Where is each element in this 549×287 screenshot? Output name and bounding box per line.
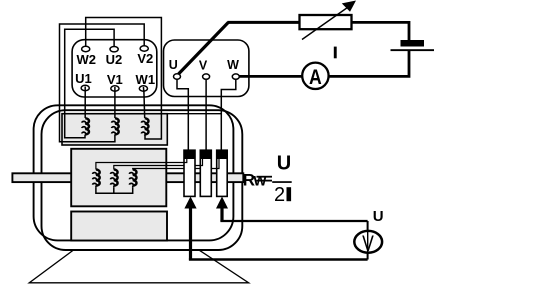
rheostat arrow head [342, 1, 356, 12]
base stand trapezoid [29, 250, 249, 282]
rotor lead 1 to slip ring 1 [96, 163, 184, 170]
battery negative plate [391, 49, 435, 51]
battery positive plate [401, 40, 425, 47]
terminal box [72, 40, 157, 97]
svg-text:W2: W2 [76, 52, 96, 67]
terminal U1 [81, 85, 89, 90]
slip ring 2 body [200, 150, 211, 196]
terminal V2 [140, 46, 148, 51]
rheostat arrow shaft [302, 8, 348, 40]
svg-text:V2: V2 [137, 51, 153, 66]
stator coil 2 [115, 118, 119, 134]
wire stator box top extension [167, 113, 221, 115]
svg-text:U: U [277, 152, 291, 174]
rotor lead 3 tick into ring 3 [216, 159, 219, 169]
rheostat R [300, 15, 352, 29]
slip ring 1 cap [184, 150, 195, 158]
svg-text:A: A [309, 66, 322, 90]
svg-text:U2: U2 [106, 52, 123, 67]
rotor coil 1 [96, 170, 100, 186]
fraction denominator I [287, 187, 292, 201]
wire stub through W1 [142, 87, 145, 92]
terminal V [203, 74, 210, 79]
stator coil 3 [145, 118, 149, 134]
rotor lead 1 tick into ring 1 [184, 159, 187, 163]
wire U2 to coil1 bottom [65, 29, 114, 138]
rotor lead 2 tick into ring 2 [200, 159, 203, 166]
svg-text:V: V [362, 232, 374, 257]
brush arrow 1 [184, 197, 196, 209]
stator winding box [62, 114, 167, 145]
rotor coil 3 [133, 170, 137, 186]
wire blade to rheostat [228, 21, 301, 24]
wire U1 down to coil1 top [84, 91, 86, 118]
rotor star-point bus wire [96, 187, 133, 193]
connector box [164, 40, 249, 97]
fraction bar [272, 181, 292, 183]
svg-text:W: W [227, 58, 239, 72]
rotor box [71, 149, 166, 207]
switch blade from U terminal [179, 22, 229, 74]
terminal V1 [111, 86, 119, 91]
shaft [12, 173, 243, 182]
voltmeter V1 [354, 231, 382, 253]
wire U terminal down to slip ring 1 [177, 79, 188, 150]
motor body inner outline [42, 110, 243, 250]
slip ring 3 body [217, 150, 228, 196]
svg-text:2: 2 [274, 184, 285, 206]
slip ring 3 cap [217, 150, 228, 158]
wire W2 to coil3 bottom (up, over right side, down) [86, 18, 162, 140]
svg-text:V1: V1 [107, 72, 123, 87]
brush arrow 2 [216, 197, 228, 209]
terminal W2 [82, 46, 90, 51]
rotor lead 2 to slip ring 2 [114, 166, 200, 170]
terminal W [232, 74, 239, 79]
wire battery to ammeter to W terminal [239, 51, 409, 76]
terminal U2 [110, 47, 118, 52]
wire V1 down to coil2 top [114, 91, 116, 118]
svg-text:V: V [199, 58, 208, 72]
wire stub through U1 [84, 87, 86, 92]
wire arrow1 to voltmeter bottom [189, 206, 192, 260]
svg-text:U: U [373, 208, 384, 225]
wire rheostat to battery [352, 22, 410, 40]
wire voltmeter branch [367, 221, 369, 260]
rotor coil2 bottom stub [113, 187, 115, 193]
bottom stator box [71, 212, 167, 241]
wire V terminal down to slip ring 2 [205, 79, 207, 150]
wire V2 to coil2 bottom (up, over left side, down) [60, 24, 145, 142]
wire W terminal down to slip ring 3 [221, 79, 236, 150]
wire arrow2 to voltmeter top [220, 206, 223, 221]
slip ring 2 cap [200, 150, 211, 158]
rotor lead 3 to slip ring 3 [133, 169, 217, 170]
svg-text:W1: W1 [136, 72, 156, 87]
slip ring 1 body [184, 150, 195, 196]
rotor coil 2 [114, 170, 118, 186]
svg-text:U: U [169, 58, 178, 72]
svg-text:U1: U1 [75, 71, 92, 86]
voltmeter needle wire through [367, 230, 369, 253]
ammeter A1 [302, 63, 328, 89]
stator coil 1 [85, 118, 89, 134]
terminal W1 [139, 86, 147, 91]
wire W1 down to coil3 top [143, 91, 146, 118]
motor body outer outline [34, 105, 234, 240]
label I [334, 47, 337, 59]
terminal U [174, 74, 181, 79]
wire stub through V1 [114, 87, 116, 92]
